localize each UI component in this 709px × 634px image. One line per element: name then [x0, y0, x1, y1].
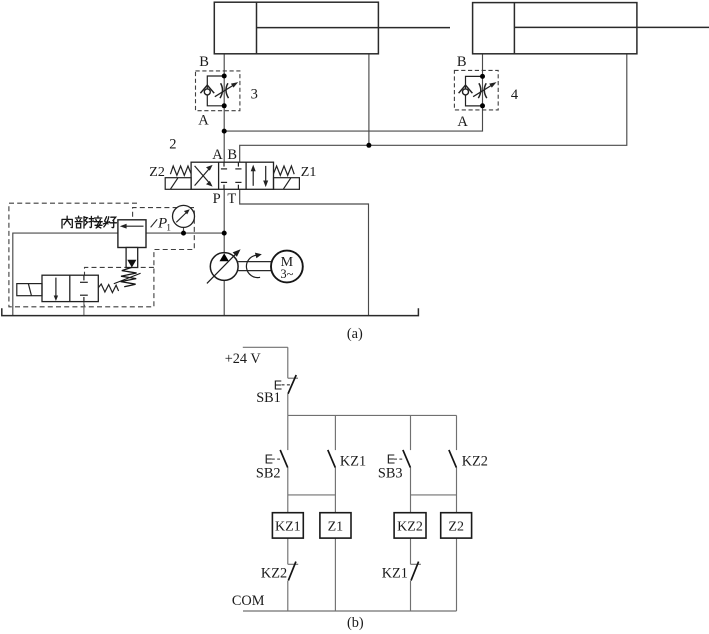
- contact tick KZ2-NC: [288, 563, 298, 565]
- svg-text:(b): (b): [347, 615, 364, 631]
- wire branch4 to COM: [456, 538, 458, 611]
- wire gauge stub: [183, 227, 185, 233]
- wire T return line to tank: [240, 189, 369, 316]
- check valve ball: [204, 89, 210, 95]
- electric motor M: [271, 251, 303, 283]
- pilot valve left position arrow: [54, 278, 58, 301]
- valve 2 left return spring: [170, 166, 191, 175]
- wire A-branch to valve4: junction to valve4 A port: [224, 110, 482, 131]
- relief valve spring: [114, 267, 141, 286]
- wire branch1 below coil: [287, 538, 289, 564]
- svg-text:KZ1: KZ1: [275, 519, 301, 534]
- wire branch3 below coil: [410, 538, 412, 564]
- contact KZ1 (NO): [328, 450, 336, 468]
- wire P line valve2 to pump: [223, 189, 225, 253]
- wire SB1 lower to bus: [287, 394, 289, 415]
- contact KZ2 (NC interlock): [288, 562, 296, 581]
- contact tick KZ1-NC: [411, 563, 421, 565]
- junction dot gauge: [181, 231, 186, 236]
- svg-text:Z2: Z2: [448, 519, 464, 534]
- svg-text:A: A: [198, 113, 209, 129]
- valve 4 adjustment arrow: [473, 82, 496, 97]
- svg-text:B: B: [199, 54, 209, 70]
- relay coil KZ1: [272, 513, 303, 538]
- pressure gauge needle: [176, 209, 190, 222]
- pushbutton SB3 (NO): [403, 450, 411, 468]
- directional valve U2 body: [191, 162, 273, 189]
- pilot unloading valve body: [42, 275, 98, 301]
- pump variable arrow: [207, 249, 241, 283]
- pump outlet triangle: [220, 253, 229, 261]
- valve 2 left solenoid Z2 box: [165, 178, 191, 190]
- pushbutton SB2 (NO): [280, 450, 288, 468]
- contact KZ2 (NO): [449, 450, 457, 468]
- wire relief valve inlet to P line: [146, 232, 224, 234]
- relief valve internal arrow: [120, 224, 144, 229]
- wire branch3 upper: [410, 415, 412, 450]
- rotation direction arc: [246, 253, 261, 278]
- junction dot B-line / cyl1 rod side: [366, 143, 371, 148]
- relief valve poppet housing: [126, 248, 138, 268]
- relay coil KZ2: [394, 513, 426, 538]
- wire branch1 upper: [287, 415, 289, 450]
- wire COM rail: [243, 610, 457, 612]
- svg-text:KZ2: KZ2: [397, 519, 423, 534]
- pilot valve right position blocked ports: [80, 275, 88, 301]
- svg-text:SB1: SB1: [256, 390, 281, 406]
- svg-text:P: P: [213, 191, 221, 207]
- wire branch2 to COM: [334, 538, 336, 611]
- svg-text:KZ2: KZ2: [261, 566, 287, 582]
- relief valve poppet cone: [127, 260, 136, 268]
- junction dot A-line branch: [222, 129, 227, 134]
- tank / base line: [2, 308, 419, 315]
- valve 2 right return spring: [274, 166, 295, 175]
- label P1 leader line: [151, 219, 158, 227]
- cylinder 1: [214, 2, 450, 54]
- wire branch2 upper: [334, 415, 336, 450]
- wire A-line cyl1 to valve2 port A: [223, 54, 225, 162]
- wire B-line: valve2 B up and across to cyl2 rod-side: [240, 54, 627, 162]
- wire supply bus: [288, 414, 457, 416]
- svg-text:A: A: [457, 114, 468, 130]
- svg-text:KZ1: KZ1: [382, 566, 408, 582]
- wire connector branch1-branch2: [288, 494, 336, 496]
- wire branch3 mid: [410, 468, 412, 513]
- valve 4 junction dots: [480, 74, 485, 79]
- wire branch2 mid: [334, 468, 336, 513]
- wire +24V top rail: [243, 346, 288, 348]
- wire branch3 to COM: [410, 581, 412, 611]
- junction dot P line: [222, 231, 227, 236]
- solenoid coil Z2: [441, 513, 472, 538]
- valve 4 check-valve bypass branch: [459, 76, 483, 106]
- valve 2 left position crossed arrows: [195, 165, 213, 187]
- wire connector branch3-branch4: [411, 494, 457, 496]
- valve 2 centre position blocked ports: [221, 162, 242, 189]
- SECTION-UNLOAD: [243, 347, 457, 611]
- svg-text:SB3: SB3: [378, 465, 403, 481]
- throttle-check valve 4 dashed enclosure: [454, 70, 498, 110]
- svg-text:3: 3: [251, 87, 258, 103]
- wire branch4 mid: [456, 468, 458, 513]
- svg-text:A: A: [212, 147, 223, 163]
- svg-text:KZ2: KZ2: [462, 453, 488, 469]
- contact tick SB1: [288, 377, 298, 379]
- wire relief valve outlet to tank: [13, 233, 118, 316]
- pilot valve spring: [98, 284, 118, 293]
- check valve V-seat: [459, 85, 473, 93]
- solenoid coil Z1: [320, 513, 351, 538]
- valve 3 check-valve bypass branch: [200, 76, 224, 106]
- wire branch4 upper: [456, 415, 458, 450]
- svg-text:COM: COM: [232, 593, 265, 609]
- pilot valve actuator box: [17, 284, 42, 296]
- svg-text:Z1: Z1: [301, 165, 317, 180]
- svg-text:1: 1: [166, 224, 171, 234]
- wire branch1 mid: [287, 468, 289, 513]
- svg-text:4: 4: [511, 87, 519, 103]
- throttle-check valve 3 dashed enclosure: [196, 71, 240, 111]
- motor shaft lines: [238, 262, 271, 271]
- pushbutton SB1 (NC): [288, 375, 296, 394]
- pressure gauge: [173, 205, 195, 227]
- valve 3 adjustment arrow: [215, 82, 238, 97]
- svg-text:Z2: Z2: [149, 165, 165, 180]
- valve 3 junction dots: [222, 74, 227, 79]
- unloading unit dashed enclosure: [9, 203, 194, 307]
- relief valve body: [118, 220, 146, 248]
- svg-text:(a): (a): [347, 326, 363, 342]
- contact KZ1 (NC interlock): [411, 562, 419, 581]
- label 内部接好 (drawn strokes): [62, 216, 117, 228]
- valve 2 right solenoid Z1 box: [274, 178, 300, 190]
- inner dashed box (internal connection): [85, 267, 154, 306]
- check valve V-seat: [200, 85, 214, 93]
- svg-text:KZ1: KZ1: [340, 453, 366, 469]
- pump circle: [210, 253, 238, 281]
- svg-text:T: T: [227, 191, 236, 207]
- svg-text:+24 V: +24 V: [225, 351, 262, 367]
- wire branch1 to COM: [287, 581, 289, 611]
- svg-text:2: 2: [169, 137, 176, 153]
- wire cyl1 rod-side drop: [368, 54, 370, 146]
- check valve ball: [463, 89, 469, 95]
- wire pilot valve drain to tank: [83, 302, 85, 316]
- svg-text:Z1: Z1: [328, 519, 344, 534]
- svg-text:B: B: [227, 147, 237, 163]
- wire cyl2 cap-side drop through valve4: [482, 54, 484, 110]
- cylinder 2: [473, 3, 709, 54]
- wire SB1 upper: [287, 347, 289, 378]
- valve 3 throttle arcs: [220, 83, 229, 98]
- wire pump suction to tank: [223, 280, 225, 316]
- svg-text:B: B: [457, 54, 467, 70]
- svg-text:3~: 3~: [280, 267, 293, 281]
- valve 2 right position parallel arrows: [251, 165, 269, 188]
- valve 4 throttle arcs: [478, 83, 487, 98]
- svg-text:SB2: SB2: [256, 465, 281, 481]
